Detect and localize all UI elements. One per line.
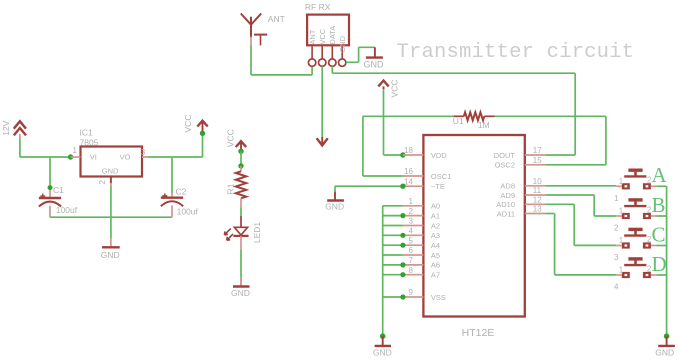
svg-text:1: 1 (73, 146, 78, 155)
ground below regulator (101, 186, 120, 259)
pushbutton 1 (A) (614, 170, 656, 203)
wire button C to rail (656, 245, 666, 247)
junction dot pin 4 A3 (400, 233, 405, 238)
svg-text:1: 1 (619, 207, 624, 216)
rf module RF RX (305, 2, 349, 46)
svg-text:D: D (652, 252, 667, 276)
svg-text:10: 10 (533, 177, 542, 186)
junction dot at IC1 pin 1 (68, 154, 73, 159)
rf module pin VCC (318, 28, 327, 66)
wire 12V to VI (20, 138, 71, 157)
svg-text:4: 4 (614, 283, 619, 292)
pushbutton 3 (C) (614, 229, 656, 262)
svg-text:VCC: VCC (226, 129, 236, 147)
wire buttons rail to ground (666, 186, 668, 336)
junction dot below VCC arrow (238, 149, 243, 154)
svg-text:IC1: IC1 (80, 127, 94, 137)
supply VCC at HT12E VDD (378, 80, 403, 155)
wire AD9 to button B (545, 195, 616, 216)
svg-text:LED1: LED1 (252, 222, 262, 244)
rf module pin ANT (308, 29, 317, 66)
svg-text:8: 8 (409, 266, 414, 275)
svg-text:3: 3 (614, 253, 619, 262)
resistor R1 (225, 166, 246, 208)
svg-text:~TE: ~TE (431, 182, 445, 191)
svg-text:100uf: 100uf (177, 206, 199, 216)
ic pin 12 AD10 (496, 196, 545, 210)
ic pin 15 OSC2 (495, 156, 546, 170)
svg-text:ANT: ANT (268, 14, 285, 24)
svg-text:1M: 1M (478, 120, 490, 130)
wire rf DATA to HT12E DOUT (332, 66, 575, 155)
svg-text:GND: GND (101, 250, 120, 260)
ic pin 8 A7 (403, 266, 440, 280)
wire DOUT (545, 154, 575, 156)
svg-text:AD8: AD8 (500, 182, 515, 191)
ic pin 11 AD9 (500, 186, 545, 200)
svg-text:100uf: 100uf (56, 205, 78, 215)
wire AD10 to button C (545, 204, 616, 245)
svg-text:VCC: VCC (390, 80, 400, 98)
supply arrow down at rf VCC pin (317, 66, 328, 145)
ic pin 17 DOUT (494, 146, 545, 160)
junction dot at left ground (380, 333, 386, 339)
wire R1 to LED1 (240, 208, 242, 217)
svg-text:OSC1: OSC1 (431, 172, 451, 181)
svg-text:U1: U1 (453, 116, 464, 126)
junction dot at ~TE pin (400, 184, 405, 189)
svg-text:VSS: VSS (431, 293, 446, 302)
svg-text:VCC: VCC (318, 28, 327, 44)
svg-text:A6: A6 (431, 261, 440, 270)
ic pin 14 ~TE (403, 177, 445, 191)
svg-text:AD10: AD10 (496, 200, 515, 209)
ground below buttons (655, 336, 675, 358)
svg-text:5: 5 (409, 236, 414, 245)
svg-text:GND: GND (102, 167, 119, 176)
wire button A to rail (656, 185, 666, 187)
junction dot at VDD pin (400, 152, 405, 157)
ground at ~TE (325, 192, 344, 212)
svg-text:VI: VI (90, 153, 97, 162)
ic pin 5 A4 (403, 236, 440, 250)
svg-text:14: 14 (404, 177, 413, 186)
svg-text:17: 17 (533, 146, 542, 155)
svg-text:GND: GND (231, 288, 250, 298)
svg-text:GND: GND (338, 35, 347, 52)
ic pin 7 A6 (403, 256, 440, 270)
junction dot pin 5 A4 (400, 243, 405, 248)
svg-text:1: 1 (619, 266, 624, 275)
svg-text:HT12E: HT12E (462, 327, 495, 339)
wire VCC to R1 (240, 151, 242, 166)
svg-text:C1: C1 (53, 185, 64, 195)
ic pin 2 A1 (403, 207, 440, 221)
ic pin 13 AD11 (497, 205, 545, 219)
wire rf GND pin to ground (346, 47, 375, 62)
ground at rf module (364, 47, 385, 69)
svg-text:13: 13 (533, 205, 542, 214)
svg-text:3: 3 (409, 217, 414, 226)
wire antenna to rf module ANT pin (251, 37, 312, 75)
svg-text:2: 2 (98, 180, 107, 185)
wire button D to rail (656, 274, 666, 276)
svg-text:A0: A0 (431, 202, 440, 211)
svg-text:A2: A2 (431, 221, 440, 230)
svg-text:7: 7 (409, 256, 414, 265)
svg-text:DOUT: DOUT (494, 151, 516, 160)
svg-text:GND: GND (373, 348, 392, 358)
junction dot pin 7 A6 (400, 262, 405, 267)
svg-text:15: 15 (533, 156, 542, 165)
capacitor C1 (39, 157, 78, 217)
svg-text:11: 11 (533, 186, 542, 195)
svg-text:A: A (652, 163, 668, 187)
svg-text:3: 3 (141, 148, 146, 157)
junction dot above R1 (238, 163, 243, 168)
svg-text:B: B (652, 193, 666, 217)
svg-text:GND: GND (364, 59, 385, 69)
svg-text:2: 2 (409, 207, 414, 216)
ic pin 9 VSS (403, 288, 446, 302)
ic pin 4 A3 (403, 227, 440, 241)
junction dot pin 8 A7 (400, 272, 405, 277)
ic HT12E box (423, 135, 524, 339)
junction dot VCC output (200, 131, 205, 136)
ic pin 10 AD8 (500, 177, 545, 191)
led LED1 (224, 216, 261, 250)
wire gnd rail C1-C2 (50, 216, 172, 218)
supply 12V (1, 120, 26, 138)
svg-text:2: 2 (614, 224, 619, 233)
wire resistor to OSC2 (495, 116, 606, 165)
svg-text:A4: A4 (431, 241, 440, 250)
junction dot at right ground (664, 333, 670, 339)
svg-text:DATA: DATA (328, 26, 337, 45)
svg-text:1: 1 (409, 197, 414, 206)
svg-text:ANT: ANT (308, 29, 317, 44)
wire button B to rail (656, 215, 666, 217)
svg-text:12: 12 (533, 196, 542, 205)
capacitor C2 (161, 157, 199, 217)
svg-text:1: 1 (619, 177, 624, 186)
svg-text:18: 18 (404, 146, 413, 155)
antenna ANT (241, 14, 285, 46)
svg-text:6: 6 (409, 246, 414, 255)
ic pin 1 A0 (403, 197, 440, 211)
svg-text:7805: 7805 (80, 138, 99, 148)
svg-text:1: 1 (614, 194, 619, 203)
wire AD11 to button D (545, 214, 616, 275)
wire OSC1 to resistor (363, 116, 454, 176)
svg-text:C: C (652, 222, 666, 246)
svg-text:VDD: VDD (431, 151, 447, 160)
junction dot pin 2 A1 (400, 213, 405, 218)
svg-text:AD11: AD11 (497, 209, 515, 218)
ic pin 16 OSC1 (403, 167, 451, 181)
svg-text:OSC2: OSC2 (495, 161, 515, 170)
pushbutton 4 (D) (614, 259, 656, 292)
svg-text:RF RX: RF RX (305, 2, 331, 12)
svg-text:A5: A5 (431, 251, 440, 260)
ic pin 18 VDD (403, 146, 447, 160)
svg-text:12V: 12V (1, 120, 11, 135)
ground below A-bus (373, 336, 392, 358)
svg-text:Transmitter circuit: Transmitter circuit (397, 41, 635, 64)
svg-text:VO: VO (120, 153, 131, 162)
wire LED1 to gnd (240, 250, 242, 278)
svg-text:A3: A3 (431, 231, 440, 240)
ic pin 3 A2 (403, 217, 440, 231)
svg-text:GND: GND (655, 348, 674, 358)
junction dot pin 9 VSS (400, 294, 405, 299)
supply VCC at regulator output (183, 115, 208, 157)
svg-text:A1: A1 (431, 211, 440, 220)
rf module pin DATA (328, 26, 337, 67)
svg-text:C2: C2 (176, 186, 187, 196)
wire ~TE to ground (335, 186, 403, 191)
svg-text:GND: GND (325, 201, 344, 211)
ground below LED1 (231, 277, 250, 298)
wire bus A0-A7 VSS (383, 206, 403, 336)
junction dot C1 (48, 185, 53, 190)
rf module pin GND (338, 35, 347, 66)
supply VCC at LED branch (226, 129, 247, 151)
resistor U1 1M (453, 112, 495, 130)
pushbutton 2 (B) (614, 200, 656, 233)
svg-text:AD9: AD9 (500, 191, 515, 200)
svg-text:A7: A7 (431, 271, 440, 280)
voltage regulator IC1 7805 (71, 127, 148, 187)
svg-text:16: 16 (404, 167, 413, 176)
svg-text:R1: R1 (225, 183, 235, 194)
svg-text:9: 9 (409, 288, 414, 297)
wire AD8 to button A (545, 185, 616, 187)
svg-text:4: 4 (409, 227, 414, 236)
svg-text:1: 1 (619, 236, 624, 245)
ic pin 6 A5 (403, 246, 440, 260)
wire VO to VCC (148, 156, 203, 158)
svg-text:VCC: VCC (183, 115, 193, 133)
